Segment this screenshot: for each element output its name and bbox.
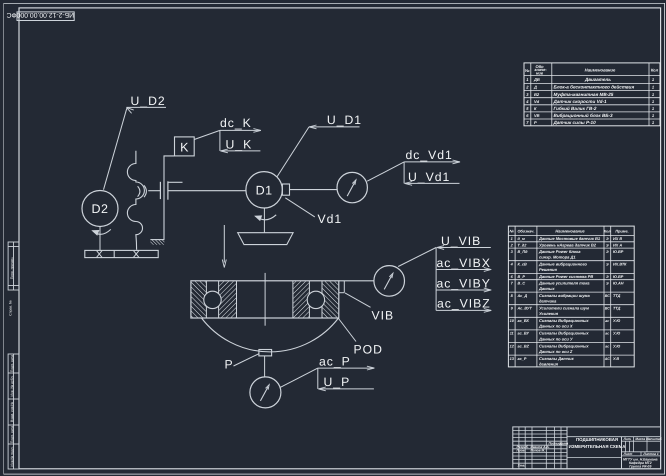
svg-text:ИХ.ВТК: ИХ.ВТК — [613, 263, 627, 267]
bracket vertical — [435, 248, 437, 311]
svg-text:Данные вибрационного: Данные вибрационного — [538, 262, 587, 267]
svg-text:Сигналы Вибрационных: Сигналы Вибрационных — [539, 331, 589, 336]
wire shaft left segment — [148, 190, 160, 192]
svg-text:Сигналы вибрации шума: Сигналы вибрации шума — [539, 293, 590, 298]
svg-text:ас: ас — [605, 332, 609, 336]
svg-text:У.Ю: У.Ю — [613, 344, 620, 348]
svg-text:В_Пд: В_Пд — [518, 250, 529, 254]
svg-text:Усилители сигнала шум: Усилители сигнала шум — [539, 306, 589, 311]
svg-text:ас: ас — [605, 344, 609, 348]
svg-text:Обознач.: Обознач. — [517, 230, 534, 234]
svg-text:Двигатель: Двигатель — [584, 77, 611, 82]
svg-text:Данных по оси Х: Данных по оси Х — [538, 324, 573, 329]
svg-text:Ю.ВР: Ю.ВР — [613, 250, 624, 254]
force arrow down — [223, 225, 225, 263]
svg-text:U_Vd1: U_Vd1 — [408, 170, 450, 184]
svg-text:№: № — [510, 230, 515, 234]
svg-text:11: 11 — [510, 332, 514, 336]
svg-text:Сигналы Вибрационных: Сигналы Вибрационных — [539, 318, 589, 323]
svg-text:Кол: Кол — [604, 230, 611, 234]
bearing left cell lines — [205, 281, 207, 318]
svg-text:ac_P: ac_P — [319, 354, 351, 368]
clutch control wire from K — [164, 156, 175, 240]
svg-text:ВС: ВС — [605, 294, 611, 298]
svg-text:Справ. №: Справ. № — [8, 300, 12, 316]
label U_P — [317, 368, 319, 389]
svg-text:В_Р: В_Р — [518, 275, 526, 279]
svg-text:Ю.ВР: Ю.ВР — [613, 275, 624, 279]
svg-text:U_VIB: U_VIB — [441, 234, 481, 248]
svg-text:Сигналы Вибрационных: Сигналы Вибрационных — [539, 343, 589, 348]
pressure gauge P — [250, 377, 281, 408]
rotation arrow of D1 — [256, 215, 277, 220]
svg-text:Муфта-магнитная МВ-25: Муфта-магнитная МВ-25 — [554, 92, 614, 97]
title block left grid — [518, 427, 520, 469]
svg-text:U_K: U_K — [226, 137, 253, 151]
svg-text:ИЗМЕРИТЕЛЬНАЯ СХЕМА: ИЗМЕРИТЕЛЬНАЯ СХЕМА — [569, 444, 627, 449]
svg-text:У.Ю: У.Ю — [613, 332, 620, 336]
svg-text:Утв.: Утв. — [518, 464, 526, 468]
bearing ball left — [204, 291, 221, 308]
leader VIB label — [345, 293, 371, 307]
svg-text:ВС: ВС — [605, 307, 611, 311]
wire D1 to load — [263, 208, 265, 233]
svg-text:Э: Э — [606, 275, 609, 279]
svg-text:Лит.: Лит. — [623, 437, 632, 441]
document number text (rotated 180) — [6, 11, 74, 18]
vibrometer gauge VIB — [374, 266, 405, 297]
svg-text:АС: АС — [604, 357, 610, 361]
svg-text:dc_K: dc_K — [220, 116, 252, 130]
svg-text:Р: Р — [534, 120, 537, 125]
svg-text:Ю.АН: Ю.АН — [613, 282, 624, 286]
bearing right outer hatch — [323, 281, 339, 317]
svg-text:VIB: VIB — [372, 309, 395, 323]
svg-text:POD: POD — [354, 342, 383, 356]
svg-text:Масштаб: Масштаб — [646, 437, 663, 441]
tachometer gauge Vd1 — [337, 172, 367, 202]
leader POD — [339, 319, 357, 342]
svg-text:В2: В2 — [534, 92, 540, 97]
rotation arrow of D2 — [93, 229, 111, 234]
svg-text:ас_ВХ: ас_ВХ — [518, 319, 530, 323]
svg-text:Данных: Данных — [538, 286, 555, 291]
svg-text:Инв. № дубл.: Инв. № дубл. — [10, 375, 14, 396]
svg-text:ас: ас — [605, 319, 609, 323]
svg-text:К_сВ: К_сВ — [518, 263, 528, 267]
svg-text:Vd: Vd — [534, 99, 540, 104]
svg-text:Решения: Решения — [539, 267, 557, 272]
svg-text:U_D1: U_D1 — [327, 113, 362, 127]
svg-text:Инв.№ подл.: Инв.№ подл. — [10, 446, 14, 466]
VIB sensor box — [343, 281, 345, 293]
svg-text:Гибкий Валик ГВ-2: Гибкий Валик ГВ-2 — [554, 106, 597, 111]
svg-text:Ас_Д: Ас_Д — [517, 294, 528, 298]
svg-text:U_D2: U_D2 — [131, 94, 166, 108]
svg-text:VB: VB — [534, 113, 540, 118]
signals table — [508, 226, 634, 367]
base plate — [85, 250, 158, 257]
bearing left inner hatch — [219, 281, 236, 317]
svg-text:Данных по оси Z: Данных по оси Z — [538, 349, 573, 354]
label U_Vd1 — [403, 162, 405, 184]
svg-text:Усиления: Усиления — [539, 311, 559, 316]
base X mark 1 — [97, 251, 102, 258]
svg-text:Листов 1: Листов 1 — [642, 452, 658, 456]
svg-text:D1: D1 — [256, 184, 273, 198]
wire D2 to base plate — [99, 227, 101, 251]
leader VIB gauge to U_VIB bracket — [398, 248, 436, 267]
motor D2 — [82, 191, 118, 227]
svg-text:ТТД: ТТД — [613, 307, 621, 311]
svg-text:Приме.: Приме. — [615, 230, 628, 234]
svg-text:ac_VIBY: ac_VIBY — [437, 276, 491, 290]
housing arc — [202, 318, 339, 352]
leader P gauge to ac_P bracket — [280, 368, 318, 388]
left margin free label — [8, 300, 12, 316]
svg-text:ac_VIBX: ac_VIBX — [437, 256, 491, 270]
svg-text:dc_Vd1: dc_Vd1 — [406, 148, 453, 162]
title block outline — [513, 427, 661, 469]
wire D1 to tachometer — [290, 189, 338, 191]
svg-text:ас_ВУ: ас_ВУ — [518, 332, 530, 336]
svg-text:ние: ние — [536, 71, 544, 76]
svg-text:P: P — [225, 357, 234, 371]
flexible shaft (wavy line) — [127, 151, 144, 250]
svg-text:Пров.: Пров. — [517, 449, 526, 453]
svg-text:K: K — [180, 140, 189, 154]
coupling box on D1 shaft — [282, 184, 289, 195]
svg-text:№: № — [525, 68, 530, 73]
svg-text:Вибрационный блок ВБ-3: Вибрационный блок ВБ-3 — [554, 113, 614, 118]
svg-text:Сигналы Датчик: Сигналы Датчик — [539, 356, 575, 361]
svg-text:1: 1 — [511, 237, 513, 241]
svg-text:Э: Э — [606, 263, 609, 267]
left margin stamp lower texts — [10, 355, 14, 372]
svg-text:Э: Э — [606, 250, 609, 254]
svg-text:ПОДШИПНИКОВАЯ: ПОДШИПНИКОВАЯ — [576, 437, 618, 442]
svg-text:У.В: У.В — [613, 357, 619, 361]
svg-text:ас_Р: ас_Р — [518, 357, 527, 361]
svg-text:Группа РК-09: Группа РК-09 — [629, 465, 651, 469]
bearing centerline — [264, 273, 266, 326]
svg-text:ТТД: ТТД — [613, 294, 621, 298]
svg-text:Данные Power блока: Данные Power блока — [538, 249, 581, 254]
svg-text:Блок-а бесконтактного действи: Блок-а бесконтактного действия — [554, 85, 635, 90]
bearing ball right — [307, 291, 324, 308]
svg-text:ДВ: ДВ — [533, 77, 540, 82]
svg-text:ac_VIBZ: ac_VIBZ — [437, 297, 491, 311]
svg-text:Наименование: Наименование — [555, 229, 585, 234]
leader U_D2 to D2 — [104, 108, 127, 189]
svg-text:Кол: Кол — [651, 68, 659, 73]
svg-text:Лист: Лист — [623, 452, 633, 456]
load trapezoid — [238, 233, 293, 245]
bearing block outline — [191, 281, 339, 318]
document number stamp box — [17, 12, 74, 21]
svg-text:Данные усилителя тока: Данные усилителя тока — [538, 281, 590, 286]
title block name cell — [567, 436, 661, 438]
parts table — [524, 63, 660, 126]
elastic coupling arcs — [138, 186, 140, 196]
svg-text:Перв. примен.: Перв. примен. — [10, 257, 14, 280]
motor D1 — [246, 172, 282, 208]
base X mark 2 — [134, 251, 139, 258]
P sensor box — [259, 350, 272, 356]
ground support — [150, 239, 164, 241]
svg-text:датчика: датчика — [539, 299, 557, 304]
svg-text:Данных по оси У: Данных по оси У — [538, 336, 573, 341]
left margin stamp upper box — [8, 242, 19, 290]
bearing right inner hatch — [292, 281, 294, 318]
clutch right half — [167, 181, 169, 199]
svg-text:Дата: Дата — [559, 441, 569, 445]
svg-text:Данные Power система РВ: Данные Power система РВ — [538, 274, 593, 279]
bearing right cell lines — [308, 281, 310, 318]
svg-text:Vd1: Vd1 — [318, 212, 343, 226]
wire main shaft — [169, 190, 246, 192]
svg-text:Ас_ВУТ: Ас_ВУТ — [517, 307, 533, 311]
svg-text:Подп. дата: Подп. дата — [10, 355, 14, 372]
leader P label — [234, 354, 259, 366]
wire P sensor to gauge — [264, 356, 266, 377]
svg-text:Датчик скорости Vd-1: Датчик скорости Vd-1 — [553, 99, 607, 104]
svg-text:Датчик силы Р-10: Датчик силы Р-10 — [553, 120, 597, 125]
leader U_D1 to D1 — [277, 127, 309, 177]
svg-text:ИБ-2-12.00.00.000ФС: ИБ-2-12.00.00.000ФС — [6, 11, 74, 18]
svg-text:ИХ А: ИХ А — [613, 243, 622, 247]
svg-text:Взам. инв.№: Взам. инв.№ — [10, 402, 14, 422]
svg-text:У.Ю: У.Ю — [613, 319, 620, 323]
left margin stamp lower box — [8, 354, 19, 469]
svg-text:Т_д2: Т_д2 — [518, 243, 528, 247]
svg-text:Э: Э — [606, 243, 609, 247]
svg-text:U_P: U_P — [324, 375, 351, 389]
svg-text:д_м: д_м — [518, 237, 525, 241]
svg-text:Данные Мостовые датчик В1: Данные Мостовые датчик В1 — [538, 236, 601, 241]
svg-text:Попов М.: Попов М. — [531, 449, 546, 453]
svg-text:В_С: В_С — [518, 282, 526, 286]
leader K to dc_K bracket — [194, 130, 220, 139]
left margin stamp upper text — [10, 257, 14, 280]
clutch left half — [159, 182, 161, 199]
svg-text:давления: давления — [539, 362, 559, 367]
svg-text:Наименование: Наименование — [585, 68, 616, 73]
svg-text:ИХ В: ИХ В — [613, 237, 622, 241]
svg-text:Э: Э — [606, 237, 609, 241]
svg-text:Д: Д — [533, 85, 537, 90]
block K — [175, 137, 195, 156]
svg-text:D2: D2 — [92, 202, 109, 216]
title block right section — [621, 437, 623, 469]
leader gauge to dc_Vd1 bracket — [367, 162, 404, 181]
label U_K — [219, 130, 221, 151]
svg-text:Подп. дата: Подп. дата — [10, 426, 14, 443]
svg-text:Э: Э — [606, 282, 609, 286]
svg-text:Масса: Масса — [635, 437, 645, 441]
svg-text:ас_ВZ: ас_ВZ — [518, 344, 530, 348]
wire block to VIB gauge — [339, 280, 374, 282]
bearing left outer hatch — [192, 281, 206, 317]
svg-text:синхр. Мотора Д1: синхр. Мотора Д1 — [539, 255, 576, 260]
svg-text:Уровень нАгрева датчик В2: Уровень нАгрева датчик В2 — [539, 242, 597, 247]
leader Vd1 label to D1 — [285, 198, 315, 217]
